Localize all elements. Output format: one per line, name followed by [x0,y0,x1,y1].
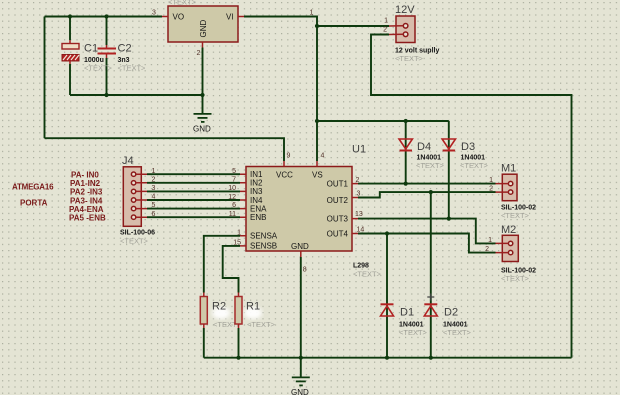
junction C1 top [68,14,72,18]
diode D2 [424,304,471,337]
wire J4-3 to IN3 [147,190,240,192]
wire regulator output to VS vertical [244,17,317,162]
svg-text:1: 1 [152,168,156,175]
IC U1 L298 motor driver [246,144,382,279]
wire regulator pin 2 to ground [202,48,204,114]
junction D2 top on OUT2 [429,190,433,194]
svg-text:R2: R2 [212,301,226,313]
wire D2 vertical [430,192,432,358]
svg-text:1: 1 [310,10,314,17]
svg-text:C1: C1 [84,43,98,55]
regulator pin 2 stub [202,42,204,48]
svg-text:<TEXT>: <TEXT> [501,211,530,220]
svg-text:15: 15 [233,239,241,246]
svg-text:5: 5 [232,168,236,175]
svg-text:D3: D3 [461,141,475,153]
J4 pin stubs [136,174,147,217]
svg-text:2: 2 [485,246,489,253]
svg-text:<TEXT>: <TEXT> [395,54,424,63]
wire OUT1 to M1 pin 1 [358,183,496,185]
svg-text:ATMEGA16: ATMEGA16 [12,183,54,192]
svg-text:9: 9 [287,153,291,160]
svg-text:VS: VS [312,171,323,180]
wire IC pin 8 GND down [300,257,302,377]
wire capacitors bottom rail [70,94,203,96]
svg-text:D1: D1 [400,307,414,319]
svg-text:1: 1 [237,229,241,236]
wire R1 bottom [238,328,240,358]
svg-text:2: 2 [356,177,360,184]
svg-text:OUT3: OUT3 [327,214,349,223]
svg-text:M1: M1 [501,163,516,175]
diode D1 [381,304,428,337]
M2 pin stubs [496,243,509,252]
svg-text:7: 7 [232,177,236,184]
wire lower horizontal to VCC pin 9 [45,138,285,161]
12V pin 2 stub [389,33,403,35]
svg-text:1: 1 [489,177,493,184]
origin marker above D2 [427,294,434,301]
svg-text:1: 1 [488,237,492,244]
junction R1 bottom [236,356,240,360]
M2 pin numbers [485,237,492,253]
diode D4 [399,139,445,170]
svg-text:C2: C2 [118,43,132,55]
svg-text:2: 2 [489,186,493,193]
svg-text:8: 8 [303,267,307,274]
regulator pin 1 stub [238,16,244,18]
connector J4 [120,155,155,246]
wire J4-4 to IN4 [147,199,240,201]
svg-text:<TEXT>: <TEXT> [443,328,472,337]
svg-text:<TEXT>: <TEXT> [399,328,428,337]
svg-text:ENB: ENB [250,213,266,222]
U1 pin numbers [228,153,364,274]
svg-text:5: 5 [152,202,156,209]
svg-text:<TEXT>: <TEXT> [118,64,147,73]
wire C2 top lead [106,17,108,46]
svg-text:M2: M2 [501,224,516,236]
diode D3 [442,139,488,170]
wire rail to diodes D4 D3 [317,120,449,122]
wire bottom ground rail [204,357,572,359]
svg-text:12V: 12V [395,4,415,16]
svg-text:VO: VO [173,13,185,22]
svg-text:<TEXT>: <TEXT> [460,161,489,170]
12V pin 1 stub [389,25,403,27]
capacitor C1 [62,40,113,73]
connector 12V [395,4,439,63]
svg-text:12: 12 [228,194,236,201]
wire R2 bottom to ground rail [203,328,205,358]
wire C2 bottom lead [106,58,108,95]
svg-text:SENSA: SENSA [250,232,278,241]
svg-text:J4: J4 [122,155,134,167]
junction D4 bottom on OUT1 [404,182,408,186]
svg-text:3: 3 [152,185,156,192]
U1 pin 8 stub [300,251,302,257]
svg-text:<TEXT>: <TEXT> [353,270,382,279]
wire D4 vertical [405,121,407,184]
junction D3 bottom on OUT3 [447,217,451,221]
svg-text:SIL-100-06: SIL-100-06 [120,230,155,237]
svg-text:L298: L298 [353,263,369,270]
svg-text:OUT1: OUT1 [327,180,349,189]
svg-text:U1: U1 [352,144,366,156]
svg-text:GND: GND [291,388,309,395]
svg-text:3: 3 [357,191,361,198]
regulator pin 3 stub [162,16,168,18]
svg-text:GND: GND [291,242,309,251]
resistor R2 [200,293,241,330]
M1 pin stubs [496,184,509,193]
capacitor C2 [98,43,147,73]
U1 right pin stubs [352,184,358,234]
resistor R1 [235,293,276,330]
wire top rail from corner to regulator pin 3 [45,16,163,18]
junction D2 bottom [429,356,433,360]
white blob near R2 [212,307,230,319]
wire J4-6 to ENB [147,216,240,218]
wire J4-1 to IN1 [147,173,240,175]
wire SENSB to R1 [223,246,240,293]
U1 top pin stubs [284,161,317,167]
wire D3 vertical [448,121,450,219]
junction C2 bottom [104,93,108,97]
svg-text:<TEXT>: <TEXT> [501,274,530,283]
svg-text:3: 3 [152,10,156,17]
wire 12V pin 2 ground return [371,35,572,358]
svg-text:D4: D4 [417,141,431,153]
wire left vertical supply drop [44,17,46,139]
junction diode rail branch [315,119,319,123]
svg-text:SENSB: SENSB [250,242,277,251]
svg-text:13: 13 [355,211,363,218]
svg-text:OUT4: OUT4 [327,229,349,238]
M1 pin numbers [489,177,493,193]
svg-text:VCC: VCC [276,171,293,180]
labels PA pin names [69,171,106,223]
wire OUT3 to M2 pin 1 [358,219,496,244]
wire C1 top lead [69,17,71,41]
svg-text:PA5 -ENB: PA5 -ENB [69,214,106,223]
wire branch to 12V pin 1 [317,25,389,27]
svg-text:4: 4 [152,194,156,201]
connector M2 [501,224,536,283]
voltage regulator [168,0,238,42]
svg-text:<TEXT>: <TEXT> [120,237,149,246]
white blob near R1 [244,307,262,319]
svg-text:VI: VI [226,13,234,22]
svg-text:6: 6 [152,211,156,218]
svg-text:D2: D2 [444,307,458,319]
junction 12V pin1 branch [315,24,319,28]
connector M1 [501,163,536,221]
svg-text:4: 4 [321,153,325,160]
ground symbol bottom [291,377,310,395]
junction IC GND on rail [299,356,303,360]
junction D1 bottom [385,356,389,360]
svg-text:11: 11 [229,211,236,218]
junction D4 top [404,119,408,123]
svg-text:1: 1 [384,18,388,25]
U1 left pin stubs [240,174,246,246]
wire J4-5 to ENA [147,208,240,210]
wire D1 vertical [386,234,388,358]
ground symbol under regulator [193,114,212,134]
svg-text:2: 2 [152,176,156,183]
svg-text:2: 2 [197,50,201,57]
svg-text:2: 2 [383,27,387,34]
svg-text:<TEXT>: <TEXT> [247,320,276,329]
svg-text:10: 10 [228,185,236,192]
svg-text:<TEXT>: <TEXT> [168,0,197,7]
svg-text:14: 14 [357,227,365,234]
wire OUT4 to M2 pin 2 [358,234,496,253]
wire J4-2 to IN2 [147,182,240,184]
svg-text:PORTA: PORTA [20,199,48,208]
junction D1 top on OUT4 [385,231,389,235]
svg-text:<TEXT>: <TEXT> [416,161,445,170]
svg-text:GND: GND [193,125,211,134]
junction caps rail to ground [200,93,204,97]
wire SENSA to R2 [204,236,240,293]
svg-text:R1: R1 [246,301,260,313]
wire C1 bottom lead [69,64,71,95]
svg-text:GND: GND [199,20,208,38]
junction C2 top [104,14,108,18]
wire OUT2 to M1 pin 2 [358,192,496,197]
svg-text:6: 6 [232,202,236,209]
svg-text:OUT2: OUT2 [327,196,349,205]
svg-text:<TEXT>: <TEXT> [84,64,113,73]
J4 wire numbers 1-6 [152,168,156,218]
